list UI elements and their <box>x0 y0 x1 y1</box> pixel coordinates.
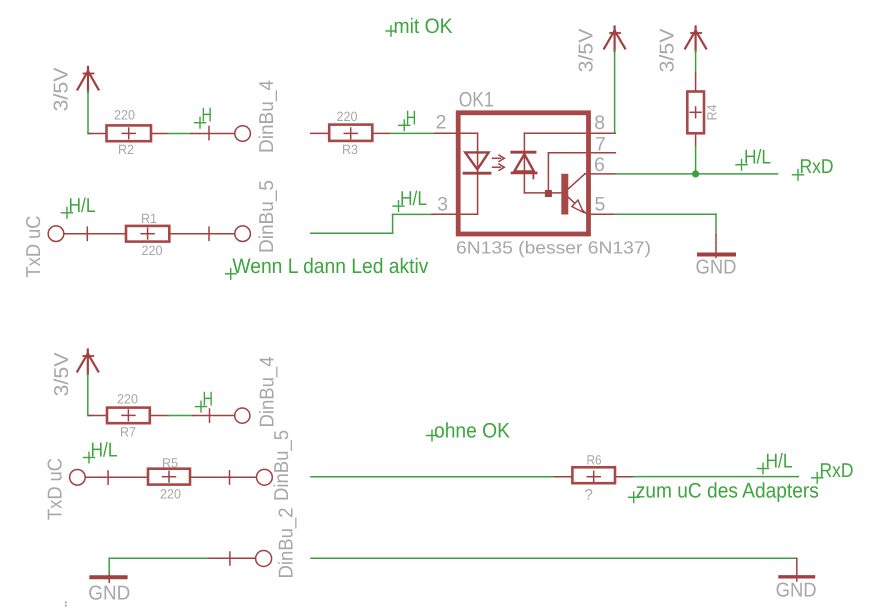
svg-text:DinBu_4: DinBu_4 <box>257 357 279 428</box>
pin 5 stub <box>587 213 615 215</box>
svg-text:GND: GND <box>776 580 817 602</box>
svg-text:2: 2 <box>436 112 447 134</box>
label 3/5V (above R4) <box>657 28 679 73</box>
svg-text:220: 220 <box>117 392 138 407</box>
wire (R4 to RxD net) <box>695 146 697 174</box>
svg-text:R4: R4 <box>705 104 720 120</box>
transistor Q (phototransistor) <box>561 174 568 215</box>
resistor R4 <box>687 73 719 146</box>
resistor R7 <box>89 392 168 440</box>
label Wenn L dann Led aktiv <box>226 255 429 279</box>
label H/L (bottom RxD) <box>758 451 793 474</box>
label 3/5V (above pin 8) <box>576 28 598 73</box>
net label 3/5V (top-left supply) <box>51 67 73 112</box>
pin 7 wire <box>547 153 549 190</box>
svg-text:R5: R5 <box>162 455 178 470</box>
pin TxD uC (top) <box>48 226 126 242</box>
svg-text:3/5V: 3/5V <box>576 28 598 73</box>
pin 8 stub <box>591 132 615 134</box>
svg-text:R7: R7 <box>120 425 136 440</box>
resistor R2 <box>89 108 168 158</box>
svg-text:DinBu_2: DinBu_2 <box>276 508 298 579</box>
svg-text:3/5V: 3/5V <box>657 28 679 73</box>
svg-text:220: 220 <box>142 243 163 258</box>
svg-text:8: 8 <box>594 112 605 134</box>
pin DinBu_5 (bottom) <box>190 469 272 485</box>
pin DinBu_4 (bottom) <box>193 408 250 423</box>
label zum uC des Adapters <box>629 479 819 502</box>
wire RxD net (pin 6) <box>615 173 777 175</box>
pin TxD uC (bottom) <box>70 470 148 486</box>
wire (supply to pin 8) <box>614 51 616 134</box>
svg-text:ohne OK: ohne OK <box>434 419 510 442</box>
svg-text:H/L: H/L <box>400 188 427 210</box>
wire (3/5V to R7) <box>88 374 91 416</box>
wire (R3 to OK1 pin 2) <box>390 132 435 134</box>
wire (DinBu_5 net to R6) <box>311 476 555 478</box>
svg-text:TxD uC: TxD uC <box>23 216 45 278</box>
svg-text:RxD: RxD <box>820 460 854 482</box>
pin DinBu_5 (top) <box>169 226 250 242</box>
wire (R6 to RxD) <box>634 476 799 478</box>
inner wire to pin 8 <box>524 132 591 134</box>
optocoupler OK1 box <box>458 113 588 234</box>
label DinBu_5 <box>256 180 278 253</box>
label ohne OK <box>427 419 511 442</box>
svg-text:6N135 (besser 6N137): 6N135 (besser 6N137) <box>456 237 651 257</box>
supply arrow 3/5V (above pin 8) <box>604 27 625 52</box>
label TxD uC (top) <box>23 216 45 278</box>
svg-text:Wenn L dann Led aktiv: Wenn L dann Led aktiv <box>232 255 428 278</box>
svg-text:220: 220 <box>337 109 358 124</box>
label DinBu_4 (bottom) <box>257 357 279 428</box>
junction (base node) <box>545 190 552 197</box>
ground GND (right) <box>699 235 734 258</box>
light arrows <box>493 157 501 159</box>
svg-text:GND: GND <box>696 257 737 279</box>
svg-text:GND: GND <box>88 583 130 605</box>
label mit OK <box>386 15 453 38</box>
svg-text:DinBu_4: DinBu_4 <box>256 80 278 153</box>
svg-text:5: 5 <box>595 194 606 216</box>
svg-text:R6: R6 <box>587 453 602 468</box>
supply arrow 3/5V (above R4) <box>685 27 706 52</box>
svg-text:220: 220 <box>114 108 135 123</box>
ground GND (bottom left) <box>91 575 125 583</box>
label H/L (net flag at pin 3) <box>393 188 427 211</box>
pin 2 stub <box>435 132 459 134</box>
label DinBu_5 (bottom) <box>271 430 293 501</box>
svg-text:H/L: H/L <box>69 195 96 217</box>
label DinBu_2 <box>276 508 298 579</box>
svg-text:3: 3 <box>437 194 448 216</box>
supply arrow 3/5V (bottom) <box>77 350 98 375</box>
svg-text:H: H <box>203 389 214 411</box>
net label 3/5V (bottom) <box>51 352 73 397</box>
label H (net flag) <box>195 105 213 128</box>
inner wire pin2 to LED <box>458 132 478 134</box>
stray mark <box>65 602 67 607</box>
wire (3/5V to R2) <box>88 91 91 134</box>
label RxD (bottom) <box>812 460 854 483</box>
svg-text:DinBu_5: DinBu_5 <box>271 430 293 501</box>
ground GND (bottom right) <box>780 558 814 581</box>
label H (net flag at pin 2) <box>399 107 417 130</box>
svg-text:TxD uC: TxD uC <box>45 458 67 520</box>
resistor R3 <box>311 109 390 157</box>
svg-text:220: 220 <box>160 487 181 502</box>
wire (net to OK1 pin 3) <box>311 214 435 233</box>
svg-text:7: 7 <box>595 133 606 155</box>
wire (R7 to DinBu_4) <box>168 415 193 417</box>
pin 3 stub <box>432 213 458 215</box>
label RxD <box>793 156 834 180</box>
svg-text:3/5V: 3/5V <box>51 352 73 397</box>
wire (bottom long net to GND right) <box>311 557 797 559</box>
resistor R5 <box>148 455 190 501</box>
junction node <box>692 170 699 177</box>
label H/L (net flag R5) <box>84 440 118 463</box>
resistor R1 <box>126 211 169 258</box>
svg-text:?: ? <box>585 487 593 504</box>
supply arrow 3/5V (top-left) <box>78 67 99 92</box>
photodiode <box>512 151 535 154</box>
svg-text:zum uC des Adapters: zum uC des Adapters <box>636 479 819 502</box>
label H/L (RxD net) <box>736 147 771 170</box>
svg-text:mit OK: mit OK <box>394 15 453 38</box>
label H/L (net flag, row 2) <box>62 195 96 218</box>
op-amp / optocoupler OK1 internals <box>432 133 615 214</box>
wire (DinBu_2 to GND left) <box>109 558 207 575</box>
svg-text:H/L: H/L <box>766 451 793 473</box>
pin numbers <box>436 112 606 216</box>
svg-text:R2: R2 <box>118 142 134 157</box>
svg-text:H/L: H/L <box>744 147 771 169</box>
wire (supply to R4) <box>695 51 697 74</box>
svg-text:H/L: H/L <box>91 440 118 462</box>
svg-text:3/5V: 3/5V <box>51 67 73 112</box>
label DinBu_4 <box>256 80 278 153</box>
svg-text:R3: R3 <box>342 142 358 157</box>
label TxD uC (bottom) <box>45 458 67 520</box>
wire (R2 to DinBu_4 pin) <box>168 133 191 135</box>
resistor R6 <box>555 453 634 504</box>
wire (pin 5 to GND) <box>615 214 716 235</box>
svg-text:R1: R1 <box>141 211 157 226</box>
svg-text:6: 6 <box>594 154 605 176</box>
pin DinBu_2 <box>208 551 272 567</box>
svg-text:OK1: OK1 <box>459 89 494 112</box>
svg-text:H: H <box>202 105 213 127</box>
photodiode anode to base node <box>524 192 561 194</box>
svg-text:H: H <box>406 107 417 129</box>
label H (net flag bottom) <box>196 389 214 412</box>
svg-text:DinBu_5: DinBu_5 <box>256 180 278 253</box>
pin DinBu_4 (top) <box>191 126 250 142</box>
svg-text:RxD: RxD <box>800 156 834 178</box>
LED diode (emitter) <box>465 152 488 169</box>
inner wire LED to pin3 <box>458 213 478 215</box>
